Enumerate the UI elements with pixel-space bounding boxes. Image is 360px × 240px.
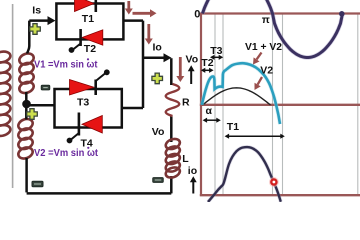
svg-text:V2 =Vm sin ωt: V2 =Vm sin ωt bbox=[34, 148, 99, 159]
svg-text:Is: Is bbox=[32, 5, 41, 17]
svg-text:R: R bbox=[182, 97, 190, 109]
svg-text:0: 0 bbox=[194, 8, 200, 20]
svg-text:L: L bbox=[182, 153, 189, 165]
svg-text:T3: T3 bbox=[77, 97, 89, 109]
svg-text:T2: T2 bbox=[201, 57, 213, 69]
svg-text:T2: T2 bbox=[84, 43, 96, 55]
svg-text:Vo: Vo bbox=[186, 54, 199, 66]
svg-text:α: α bbox=[206, 105, 213, 117]
svg-text:Vo: Vo bbox=[152, 126, 165, 138]
svg-text:V2: V2 bbox=[260, 64, 273, 76]
svg-text:T3: T3 bbox=[210, 45, 222, 57]
svg-text:Io: Io bbox=[153, 41, 162, 53]
svg-text:π: π bbox=[262, 14, 270, 26]
svg-text:T1: T1 bbox=[82, 13, 94, 25]
svg-text:V1 =Vm sin ωt: V1 =Vm sin ωt bbox=[34, 60, 98, 71]
svg-text:T1: T1 bbox=[227, 121, 239, 133]
svg-text:io: io bbox=[188, 165, 197, 177]
svg-text:V1 + V2: V1 + V2 bbox=[245, 42, 282, 53]
